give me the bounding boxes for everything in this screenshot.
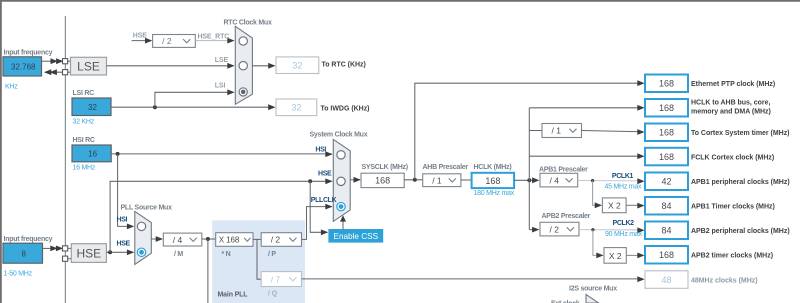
multiplier X2 APB2 — [604, 248, 626, 264]
wire pin to LSE osc return — [45, 71, 63, 73]
svg-text:PCLK1: PCLK1 — [612, 173, 634, 180]
wire N to P — [253, 238, 261, 240]
svg-text:To IWDG (KHz): To IWDG (KHz) — [321, 105, 370, 112]
wire HSI to system clock mux — [111, 153, 332, 155]
wire LSI to IWDG — [111, 106, 274, 108]
svg-text:Input frequency: Input frequency — [4, 236, 53, 243]
box FCLK 168 — [645, 148, 688, 166]
svg-text:APB1 Timer clocks (MHz): APB1 Timer clocks (MHz) — [691, 204, 775, 211]
wire pin stubs HSE — [68, 247, 72, 249]
junction PLLM out — [206, 237, 210, 241]
junction HSE CSS branch — [308, 179, 312, 183]
wire PLLQ to 48MHz — [302, 278, 644, 280]
svg-text:/ 1: / 1 — [552, 126, 562, 136]
box APB2 peripheral 84 — [645, 222, 688, 240]
wire pin stubs LSE — [68, 60, 71, 62]
box To IWDG 32 — [276, 99, 317, 116]
svg-text:32: 32 — [291, 103, 301, 113]
mux RTC Clock Mux — [235, 26, 252, 104]
wire LSI branch to RTC mux — [155, 92, 233, 107]
mux System Clock Mux — [333, 139, 350, 221]
wire HCLK to APB2 — [529, 229, 533, 231]
wire HCLK to AHB bus — [529, 107, 643, 109]
svg-text:I2S source Mux: I2S source Mux — [569, 285, 617, 292]
divider APB2 /2 — [540, 222, 579, 236]
svg-text:/ 4: / 4 — [173, 235, 183, 245]
svg-text:90 MHz max: 90 MHz max — [605, 231, 643, 238]
pin square HSE in — [63, 246, 68, 251]
input frequency box LSE 32.768 — [3, 57, 42, 76]
box APB1 timer 84 — [645, 197, 688, 215]
svg-text:HSI RC: HSI RC — [73, 137, 95, 144]
chip left border — [0, 0, 2, 303]
svg-text:HSE_RTC: HSE_RTC — [198, 34, 230, 41]
svg-text:APB2 peripheral clocks (MHz): APB2 peripheral clocks (MHz) — [691, 228, 790, 235]
svg-text:APB2 timer clocks (MHz): APB2 timer clocks (MHz) — [691, 253, 773, 260]
wire RTC mux to RTC box — [252, 65, 274, 67]
svg-text:/ 2: / 2 — [271, 235, 281, 245]
wire PLLM rail down — [207, 239, 209, 303]
radio system mux HSI — [337, 151, 345, 159]
box HCLK AHB 168 — [645, 99, 688, 117]
svg-text:HSI: HSI — [117, 216, 128, 223]
svg-text:1-50 MHz: 1-50 MHz — [4, 271, 33, 278]
svg-text:/ 2: / 2 — [550, 224, 560, 234]
box Cortex timer 168 — [645, 124, 688, 142]
svg-text:Input frequency: Input frequency — [4, 50, 53, 57]
wire PLL mux to divider M — [151, 238, 162, 240]
divider /7 PLLQ disabled — [261, 272, 301, 287]
svg-text:X 168: X 168 — [219, 236, 240, 245]
wire system mux to SYSCLK — [350, 179, 360, 181]
divider /4 PLLM — [163, 233, 202, 246]
wire HSE input to pin — [43, 247, 53, 249]
divider AHB /1 — [423, 174, 461, 187]
radio PLL mux HSE selected — [137, 248, 145, 256]
button Enable CSS — [329, 230, 383, 243]
divider APB1 /4 — [540, 173, 578, 187]
wire AHB to HCLK — [461, 179, 472, 181]
svg-text:memory and DMA (MHz): memory and DMA (MHz) — [691, 109, 771, 116]
svg-text:PLL Source Mux: PLL Source Mux — [121, 205, 173, 212]
svg-text:48: 48 — [661, 275, 671, 285]
wire HCLK to cortex divider — [529, 130, 542, 132]
svg-text:LSE: LSE — [215, 57, 229, 64]
svg-text:HSE: HSE — [133, 33, 147, 40]
wire divider M to PLL N — [202, 238, 216, 240]
wire HSI branch to PLL source mux — [118, 154, 134, 227]
wire APB2 to PCLK2 — [579, 229, 643, 231]
wire SYSCLK to ethernet PTP — [415, 83, 643, 180]
box APB2 timer 168 — [645, 246, 688, 264]
junction HCLK — [527, 178, 531, 182]
mux I2S source (clipped) — [586, 294, 599, 303]
wire HSE to PLL source mux — [106, 251, 133, 253]
box To RTC 32 — [276, 57, 319, 74]
chip top border — [0, 0, 800, 2]
svg-text:Enable CSS: Enable CSS — [333, 232, 378, 241]
svg-text:PLLCLK: PLLCLK — [311, 197, 337, 204]
wire divider to RTC mux — [195, 40, 233, 42]
svg-text:LSE: LSE — [77, 59, 100, 73]
svg-text:HCLK (MHz): HCLK (MHz) — [474, 164, 512, 171]
radio system mux PLLCLK selected — [337, 202, 345, 210]
svg-text:168: 168 — [375, 176, 390, 186]
svg-text:16 MHz: 16 MHz — [73, 165, 96, 172]
wire HSE rail to system clock mux — [110, 181, 332, 252]
svg-text:/ 1: / 1 — [432, 175, 442, 185]
svg-text:168: 168 — [659, 128, 674, 138]
svg-text:42: 42 — [661, 177, 671, 187]
wire APB2 branch to X2 — [593, 230, 603, 256]
junction APB2 — [591, 228, 594, 231]
oscillator LSI RC 32 — [72, 98, 111, 116]
radio RTC mux LSE — [239, 61, 247, 69]
junction APB1 — [591, 179, 594, 182]
radio PLL mux HSI — [137, 222, 145, 230]
svg-text:168: 168 — [659, 152, 674, 162]
wire CSS to mux — [342, 217, 344, 230]
oscillator HSE — [71, 244, 106, 263]
svg-text:KHz: KHz — [5, 84, 18, 91]
pin square LSE in — [63, 59, 68, 64]
svg-text:168: 168 — [485, 176, 500, 186]
svg-text:SYSCLK (MHz): SYSCLK (MHz) — [362, 164, 408, 171]
box SYSCLK 168 — [361, 173, 404, 187]
svg-text:/ 4: / 4 — [550, 175, 560, 185]
wire X2 to APB1 timer box — [626, 204, 643, 206]
svg-text:HSE: HSE — [77, 246, 102, 260]
svg-text:PCLK2: PCLK2 — [613, 220, 635, 227]
svg-text:32.768: 32.768 — [11, 63, 36, 72]
svg-text:168: 168 — [659, 250, 674, 260]
box 48MHz 48 — [645, 271, 688, 289]
divider cortex /1 — [542, 124, 582, 138]
wire APB1 branch to X2 — [593, 181, 601, 206]
pin square LSE out — [63, 70, 68, 75]
svg-text:APB1 Prescaler: APB1 Prescaler — [539, 166, 588, 173]
svg-text:48MHz clocks (MHz): 48MHz clocks (MHz) — [691, 277, 758, 284]
svg-text:To RTC (KHz): To RTC (KHz) — [322, 61, 366, 68]
box Ethernet PTP 168 — [645, 75, 688, 93]
svg-text:HSI: HSI — [315, 146, 326, 153]
wire PLLCLK to system mux — [302, 207, 332, 240]
radio RTC mux HSE_RTC — [239, 37, 247, 45]
svg-text:APB2 Prescaler: APB2 Prescaler — [542, 213, 591, 220]
svg-text:8: 8 — [22, 249, 27, 258]
svg-text:32: 32 — [88, 103, 97, 112]
svg-text:16: 16 — [88, 150, 97, 159]
svg-text:/ M: / M — [174, 251, 183, 258]
oscillator LSE — [71, 57, 107, 75]
junction HSI — [116, 152, 120, 156]
wire APB1 to PCLK1 — [578, 180, 644, 182]
svg-text:Main PLL: Main PLL — [218, 291, 249, 298]
svg-text:32: 32 — [292, 61, 302, 71]
multiplier xN X168 — [216, 233, 253, 247]
junction SYSCLK — [413, 178, 417, 182]
divider /2 HSE_RTC — [153, 35, 196, 48]
svg-text:LSI RC: LSI RC — [73, 90, 95, 97]
svg-text:HSE: HSE — [117, 240, 131, 247]
svg-text:/ 7: / 7 — [271, 274, 281, 284]
multiplier X2 APB1 — [602, 198, 626, 213]
svg-text:/ Q: / Q — [268, 291, 278, 298]
wire HCLK to FCLK — [529, 155, 643, 157]
wire HSE to CSS — [310, 181, 327, 232]
svg-text:Ethernet PTP clock (MHz): Ethernet PTP clock (MHz) — [691, 81, 775, 88]
svg-text:LSI: LSI — [215, 83, 226, 90]
chip boundary rail — [64, 16, 66, 303]
wire HCLK rail — [528, 108, 530, 230]
junction HSE — [108, 250, 112, 254]
box HCLK 168 — [472, 173, 514, 188]
pin square HSE out — [63, 256, 68, 261]
radio system mux HSE — [337, 177, 345, 185]
wire HCLK out — [514, 179, 533, 181]
svg-text:AHB Prescaler: AHB Prescaler — [423, 164, 469, 171]
box APB1 peripheral 42 — [645, 173, 688, 191]
svg-text:X 2: X 2 — [608, 201, 621, 211]
svg-text:FCLK Cortex clock (MHz): FCLK Cortex clock (MHz) — [691, 154, 774, 161]
wire HSE to RTC divider — [132, 40, 152, 42]
wire X2 to APB2 timer box — [626, 254, 643, 256]
svg-text:HSE: HSE — [318, 171, 332, 178]
Main PLL panel — [212, 220, 305, 303]
svg-text:32 KHz: 32 KHz — [73, 119, 95, 126]
svg-text:45 MHz max: 45 MHz max — [605, 183, 643, 190]
wire LSE input to pin — [42, 60, 53, 62]
svg-text:RTC Clock Mux: RTC Clock Mux — [224, 20, 272, 27]
mux PLL Source Mux — [135, 211, 152, 264]
svg-text:84: 84 — [661, 226, 671, 236]
divider /2 PLLP — [261, 233, 301, 247]
svg-text:180 MHz max: 180 MHz max — [474, 190, 515, 197]
wire N branch to Q — [257, 239, 261, 279]
svg-text:/ 2: / 2 — [162, 36, 172, 46]
svg-text:System Clock Mux: System Clock Mux — [310, 132, 368, 139]
svg-text:APB1 peripheral clocks (MHz): APB1 peripheral clocks (MHz) — [691, 179, 790, 186]
radio RTC mux LSI selected — [239, 88, 247, 96]
oscillator HSI RC 16 — [72, 145, 111, 162]
wire cortex divider to timer box — [582, 131, 644, 132]
svg-text:* N: * N — [222, 251, 231, 258]
svg-text:To Cortex System timer (MHz): To Cortex System timer (MHz) — [691, 130, 790, 137]
svg-text:/ P: / P — [268, 251, 276, 258]
wire SYSCLK to AHB prescaler — [404, 179, 423, 181]
wire LSE to RTC mux — [107, 65, 234, 67]
svg-text:168: 168 — [659, 79, 674, 89]
svg-text:X 2: X 2 — [609, 251, 622, 261]
input frequency box HSE 8 — [3, 243, 43, 263]
svg-text:84: 84 — [661, 201, 671, 211]
svg-text:HCLK to AHB bus, core,: HCLK to AHB bus, core, — [691, 100, 770, 107]
svg-text:168: 168 — [659, 103, 674, 113]
junction LSI — [153, 105, 157, 109]
